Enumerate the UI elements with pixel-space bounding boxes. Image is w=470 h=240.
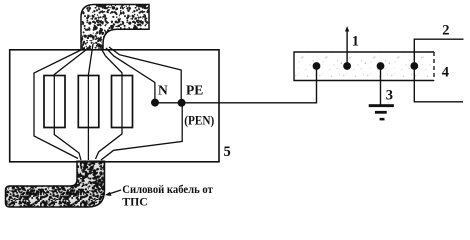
wire: conductor through winding 3: [96, 45, 123, 159]
svg-text:5: 5: [224, 144, 231, 160]
svg-text:3: 3: [386, 88, 393, 104]
PE busbar 4: [294, 52, 434, 81]
wire: PEN return to cable: [101, 103, 182, 160]
winding W1: [44, 76, 65, 128]
svg-text:4: 4: [442, 65, 449, 81]
winding W3: [112, 76, 133, 128]
wire: N conductor to node N: [106, 48, 155, 100]
wire: phase conductor around left side: [34, 48, 85, 159]
svg-text:2: 2: [442, 23, 449, 39]
svg-text:1: 1: [352, 34, 359, 50]
wire: conductor 2 upper: [414, 39, 463, 102]
node PE: [178, 99, 186, 107]
callout arrow to cable: [108, 190, 121, 194]
busbar terminal 1 (from PE): [313, 62, 321, 70]
winding center lines: [53, 76, 55, 128]
enclosure box 5: [10, 50, 219, 162]
node N: [151, 99, 159, 107]
ground (earth electrode): [369, 104, 394, 107]
svg-text:ТПС: ТПС: [122, 196, 148, 209]
power cable from TPS: upper elbow (stippled): [81, 5, 149, 50]
wire: PE conductor to node PE: [109, 47, 181, 100]
wire: conductor through winding 2: [88, 44, 93, 160]
winding W2: [78, 76, 99, 128]
svg-text:(PEN): (PEN): [184, 113, 214, 128]
wire: conductor 1 upward: [346, 29, 348, 66]
busbar terminal 4 (line 2): [410, 62, 418, 70]
busbar terminal 2 (line 1): [343, 62, 351, 70]
busbar terminal 3 (to earth): [377, 62, 385, 70]
svg-text:PE: PE: [186, 83, 203, 98]
wire: PE/PEN horizontal to busbar: [155, 66, 317, 103]
power cable from TPS: lower elbow (stippled): [6, 161, 105, 207]
svg-text:N: N: [158, 83, 168, 98]
svg-text:Силовой кабель от: Силовой кабель от: [122, 183, 213, 196]
wire: conductor through winding 1: [54, 46, 91, 160]
wire: earthing conductor down: [380, 66, 382, 105]
